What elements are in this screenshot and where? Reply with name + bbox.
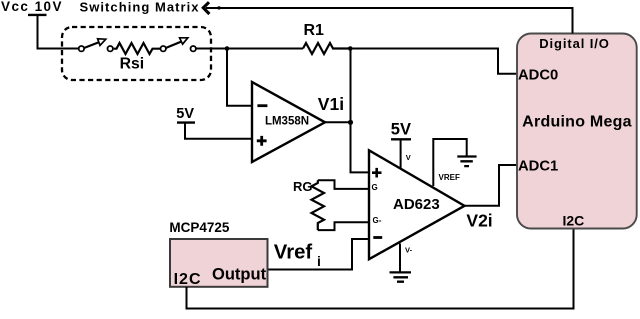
svg-text:G: G <box>372 183 378 192</box>
block MCP4725 box <box>170 239 268 287</box>
wire V- pin to ground <box>399 244 401 273</box>
svg-text:R1: R1 <box>304 22 325 39</box>
wire Vref_i to minus input <box>268 239 370 270</box>
svg-text:AD623: AD623 <box>393 196 440 213</box>
junction node B (R1 right) <box>348 46 353 51</box>
svg-text:LM358N: LM358N <box>265 116 309 128</box>
wire 5V to AD623 V pin <box>400 139 402 169</box>
wire Vcc down and right to switching matrix <box>38 15 81 49</box>
op-amp U1 LM358N triangle <box>252 82 325 162</box>
wire feedback node A down to op-amp inverting input <box>227 49 252 106</box>
svg-text:Output: Output <box>212 265 267 283</box>
svg-text:V1i: V1i <box>318 94 344 114</box>
switch S1 blade <box>84 42 100 48</box>
resistor RG <box>312 180 325 230</box>
power symbol 5V bar (AD623) <box>391 138 411 140</box>
svg-text:V2i: V2i <box>466 211 492 231</box>
wire RG bottom to G- pin <box>318 222 369 230</box>
ground (V-) <box>390 272 412 281</box>
junction node A <box>225 46 230 51</box>
svg-text:Arduino Mega: Arduino Mega <box>522 114 632 131</box>
in-amp U2 AD623 triangle <box>369 150 465 259</box>
in-amp U2 minus sign <box>373 236 382 239</box>
wire op-amp output to node V1i <box>325 121 351 123</box>
svg-text:V-: V- <box>405 245 413 254</box>
svg-text:5V: 5V <box>391 121 411 139</box>
block Arduino Mega box <box>517 34 637 229</box>
switch S2 arrowhead <box>180 38 188 44</box>
arrowhead pointing to switching matrix <box>203 2 209 14</box>
switching matrix dashed box <box>62 27 211 80</box>
junction node V1i <box>348 120 353 125</box>
svg-text:V: V <box>406 153 411 162</box>
op-amp U1 minus sign <box>257 104 267 107</box>
svg-text:VREF: VREF <box>439 173 460 182</box>
wire MCP4725 I2C to Arduino I2C bus <box>187 229 574 309</box>
switch S1 pivot <box>79 46 84 51</box>
op-amp U1 plus sign <box>257 136 267 146</box>
ground (VREF) <box>457 157 476 167</box>
wire G pin to RG top <box>318 180 369 189</box>
wire Arduino top to switching matrix arrow <box>206 8 573 34</box>
svg-text:ADC0: ADC0 <box>518 68 558 84</box>
in-amp U2 plus sign <box>372 168 382 178</box>
svg-text:Switching Matrix: Switching Matrix <box>80 0 200 14</box>
svg-text:Vref: Vref <box>274 242 313 264</box>
switch S1 arrowhead <box>98 39 106 46</box>
wire node B down through V1i to AD623 plus input <box>351 49 370 173</box>
svg-text:Vcc 10V: Vcc 10V <box>1 0 63 14</box>
svg-text:5V: 5V <box>176 106 194 122</box>
svg-text:i: i <box>317 253 321 269</box>
junction dot on arrow shaft <box>217 6 220 9</box>
svg-text:Digital I/O: Digital I/O <box>539 36 610 51</box>
resistor Rsi <box>114 43 161 54</box>
resistor R1 <box>303 43 350 54</box>
switch S2 right contact <box>191 46 196 51</box>
switch S2 left contact <box>161 46 166 51</box>
power symbol Vcc bar <box>28 14 47 16</box>
wire node B to ADC0 <box>350 49 517 74</box>
svg-text:I2C: I2C <box>174 271 202 288</box>
power symbol 5V bar (LM358N) <box>177 121 195 123</box>
wire AD623 output to ADC1 <box>465 165 518 206</box>
svg-text:Rsi: Rsi <box>120 55 145 72</box>
svg-text:ADC1: ADC1 <box>518 159 558 175</box>
wire matrix output to node A <box>196 48 303 50</box>
switch S2 blade <box>166 42 182 49</box>
wire 5V to op-amp non-inverting input <box>185 123 252 139</box>
switch S1 right contact <box>108 46 113 51</box>
svg-text:MCP4725: MCP4725 <box>169 220 230 235</box>
svg-text:I2C: I2C <box>563 212 585 228</box>
svg-text:G-: G- <box>373 216 382 225</box>
wire VREF pin to ground <box>433 139 466 186</box>
